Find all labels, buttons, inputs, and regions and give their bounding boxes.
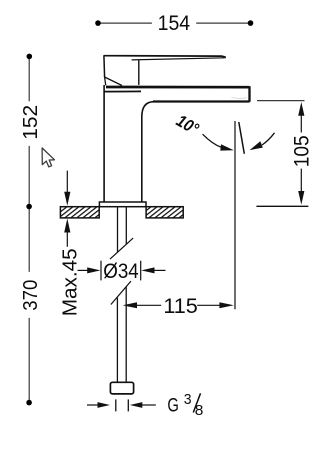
lever top edge (104, 56, 225, 58)
mouse cursor (42, 148, 54, 167)
lever wedge (105, 77, 122, 86)
dimension 154 top line (98, 22, 251, 24)
column top seam line (104, 90, 141, 92)
angle left arc (203, 134, 222, 147)
dim 105 top arrowhead (298, 102, 304, 116)
dim Ø34 right arrow (141, 267, 154, 273)
dim 115 right arrowhead (219, 302, 233, 308)
svg-text:G: G (167, 395, 179, 417)
dim Ø34 left arrow (78, 269, 90, 271)
pipe lower left line (116, 298, 118, 383)
dim G3/8 right tick (127, 399, 129, 411)
dim 105 line lower (300, 169, 302, 193)
dim Ø34 right tick (140, 261, 142, 281)
dim G3/8 left tick (115, 399, 117, 411)
deck right block (146, 207, 183, 218)
Max.45 lower leader line (66, 232, 68, 247)
aerator faint line (232, 97, 247, 98)
lever underside merging into spout top edge (106, 86, 249, 89)
dim 105 bottom arrowhead (298, 191, 304, 205)
Max.45 lower arrowhead (64, 219, 70, 233)
dimension 154 left dot (95, 20, 101, 26)
svg-text:105: 105 (290, 135, 313, 167)
break slash 1 (110, 238, 133, 259)
left dimension middle dot (26, 204, 32, 210)
dim G3/8 right line (141, 404, 156, 406)
fillet and column right edge (142, 102, 154, 202)
angle right arc (262, 133, 275, 145)
dim Ø34 left tick (100, 261, 102, 281)
dim 105 top extension line (257, 100, 305, 102)
dim G3/8 left line (87, 404, 99, 406)
svg-text:3: 3 (184, 392, 192, 408)
shank upper right line (125, 207, 127, 244)
lever neck line (138, 60, 140, 85)
body left edge (103, 85, 105, 202)
svg-text:154: 154 (158, 11, 191, 35)
svg-text:115: 115 (163, 294, 198, 318)
svg-text:152: 152 (19, 105, 42, 140)
Max.45 upper leader line (66, 171, 68, 193)
break slash 2 (111, 281, 131, 304)
label G 3/8 (167, 392, 203, 419)
angle left arrowhead (220, 144, 234, 150)
svg-text:Ø34: Ø34 (103, 260, 139, 283)
left dimension bottom dot (26, 400, 32, 406)
shank upper left line (117, 207, 119, 252)
spout underside (153, 100, 250, 102)
angle tilted line (239, 122, 245, 154)
dimension 154 right dot (248, 20, 254, 26)
svg-text:370: 370 (19, 280, 42, 311)
lever inner edge (132, 58, 225, 60)
dim 115 line left (136, 304, 161, 306)
left dimension top dot (27, 54, 33, 60)
svg-text:Max.45: Max.45 (59, 248, 82, 316)
svg-text:8: 8 (195, 402, 204, 419)
dim G3/8 left arrowhead (98, 402, 111, 408)
Max.45 upper arrowhead (64, 192, 70, 206)
dim G3/8 right arrowhead (130, 402, 143, 408)
deck left block (60, 207, 99, 218)
base flange (99, 202, 146, 207)
dim 115 left arrowhead (123, 302, 137, 308)
dim 105 line upper (300, 115, 302, 133)
lever left edge (103, 55, 106, 77)
angle vertical reference line (234, 121, 236, 309)
left dimension line (28, 56, 30, 402)
pipe end nut (110, 382, 133, 394)
angle right arrowhead (250, 141, 263, 150)
pipe lower right line (125, 287, 127, 383)
dim 105 bottom extension line (256, 205, 308, 207)
spout right edge (248, 86, 250, 102)
dim 115 line right (197, 304, 219, 306)
